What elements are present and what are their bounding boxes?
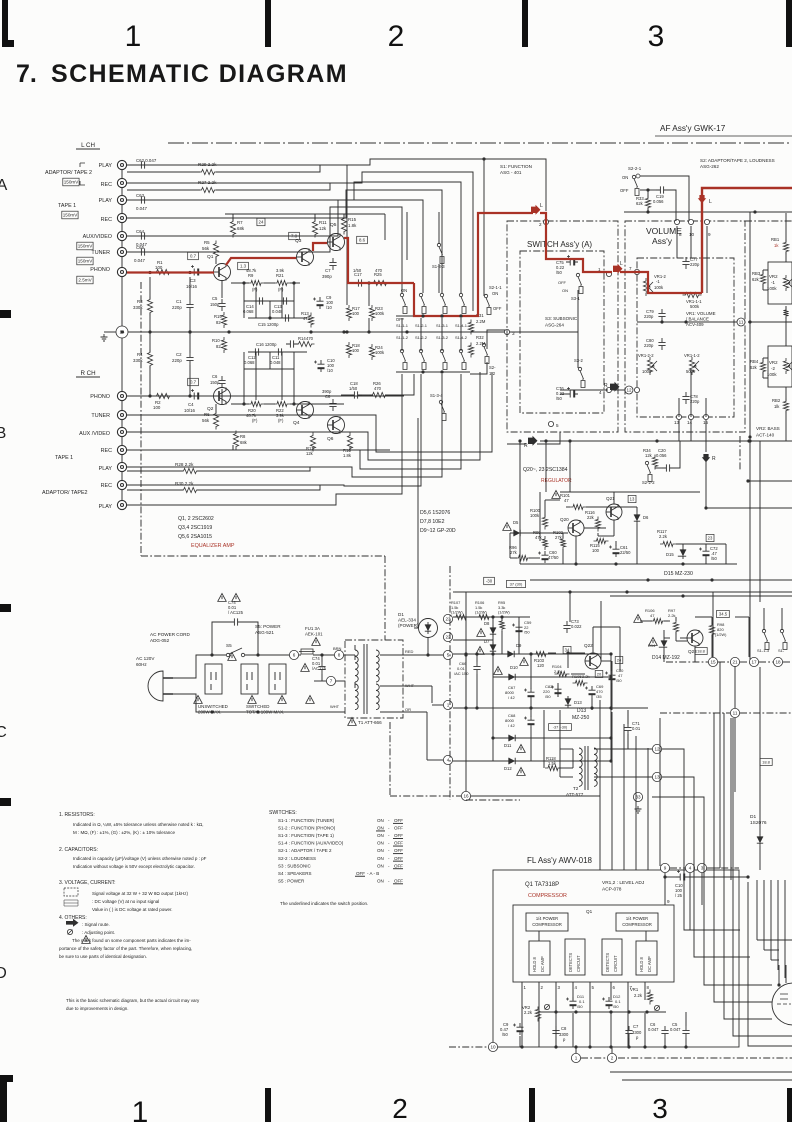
svg-text:60Hz: 60Hz: [136, 662, 147, 667]
svg-text:Q23: Q23: [688, 649, 697, 654]
wire node4: [427, 759, 443, 761]
main rail y441: [540, 440, 792, 442]
svg-text:FU1 3A: FU1 3A: [305, 626, 320, 631]
svg-text:1/4 POWER: 1/4 POWER: [626, 916, 648, 921]
svg-text:1lk: 1lk: [774, 404, 780, 409]
svg-text:100k: 100k: [375, 350, 385, 355]
svg-text:2.2k: 2.2k: [524, 1010, 533, 1015]
svg-text:27k: 27k: [510, 550, 518, 555]
svg-text:portance of the safety fac: portance of the safety factor of the par…: [59, 946, 192, 951]
bracket adaptor: [80, 163, 85, 185]
resistor RBx1: [783, 307, 788, 319]
red signal arrow L top right: [698, 195, 706, 203]
wire 4-12 link: [612, 389, 625, 391]
resistor R103: [533, 651, 549, 656]
svg-text:7.8: 7.8: [291, 234, 298, 239]
input jack rec1: [117, 213, 126, 222]
boxed 24: [257, 218, 265, 225]
svg-text:10/16: 10/16: [186, 284, 198, 289]
wire q22 area: [592, 627, 594, 653]
svg-text:WHT: WHT: [405, 683, 415, 688]
svg-text:D13: D13: [577, 708, 586, 714]
block detects circuit left: [565, 939, 585, 975]
wire rail 592 mid: [570, 591, 627, 593]
svg-text:PHONO: PHONO: [90, 267, 110, 273]
switch S1-1-1: [400, 293, 407, 313]
svg-text:AC 120V: AC 120V: [136, 656, 155, 661]
svg-text:Q6: Q6: [327, 436, 334, 442]
svg-text:3.9k: 3.9k: [276, 268, 285, 273]
resistor R104: [555, 671, 570, 676]
warn C74b: [301, 664, 310, 672]
block hold dc amp left: [529, 941, 550, 975]
wire long bottom 1072: [610, 1071, 792, 1073]
svg-text:T2: T2: [573, 786, 579, 791]
svg-text:100: 100: [592, 548, 600, 553]
svg-text:R15: R15: [348, 217, 357, 222]
svg-text:C3: C3: [190, 278, 196, 283]
svg-text:0.047: 0.047: [648, 1027, 659, 1032]
svg-text:S2-1 : ADAPTOR / TAPE 2: S2-1 : ADAPTOR / TAPE 2: [278, 848, 332, 853]
resistor R7: [230, 219, 235, 238]
svg-text:OFF: OFF: [394, 856, 403, 861]
capacitor C6: [218, 376, 225, 388]
capacitor D12 0.1/50: [606, 997, 613, 1009]
svg-text:TOTAL 100W MAX.: TOTAL 100W MAX.: [246, 710, 284, 715]
svg-text:VR2: VR2: [769, 274, 778, 279]
resistor R18: [346, 342, 351, 358]
svg-text:1: 1: [125, 20, 142, 53]
wire node16 left: [390, 795, 461, 797]
wire Q5 bias stub: [368, 283, 370, 306]
FL bottom rail nodes: [488, 1042, 497, 1051]
equalizer bottom supply rail: [225, 449, 390, 451]
boxed -30: [484, 577, 495, 584]
svg-text:Q5,6 2SA1015: Q5,6 2SA1015: [178, 534, 212, 540]
svg-text:Q1: Q1: [586, 909, 593, 914]
input jack tuner: [117, 247, 126, 256]
svg-text:0.048: 0.048: [270, 360, 281, 365]
svg-text:L: L: [620, 261, 623, 267]
node 6: [289, 650, 298, 659]
svg-text:1/50: 1/50: [353, 268, 362, 273]
svg-text:AEL-334: AEL-334: [398, 618, 416, 623]
node 13m: [652, 772, 661, 781]
svg-text:OFF: OFF: [394, 826, 403, 831]
svg-text:820: 820: [717, 627, 724, 632]
svg-text:R28 2.2k: R28 2.2k: [175, 462, 194, 467]
svg-text:ON: ON: [622, 175, 628, 180]
adjusting point legend: [67, 929, 72, 934]
node 12m: [652, 744, 661, 753]
wire feedback row L: [248, 317, 307, 319]
svg-text:COMPRESSOR: COMPRESSOR: [532, 922, 562, 927]
warn legend: [82, 936, 91, 944]
node 16: [461, 791, 470, 800]
capacitor C4: [190, 393, 202, 400]
capacitor C2: [186, 353, 193, 365]
svg-text:R CH: R CH: [80, 370, 95, 377]
boxed 150mV adaptor: [63, 178, 79, 186]
svg-text:62k: 62k: [750, 365, 758, 370]
outlet 1: [205, 664, 222, 694]
transistor Q20: [568, 520, 584, 536]
wire recR2 line: [127, 374, 421, 486]
svg-text:R4: R4: [137, 352, 143, 357]
resistor R12: [310, 433, 315, 452]
tone dash verticals: [739, 436, 741, 470]
node 23p: [443, 614, 452, 623]
resistor R6: [213, 411, 218, 430]
pin 7 volume: [634, 269, 639, 274]
svg-text:0.7: 0.7: [190, 380, 197, 385]
wire d11 d12 col: [492, 738, 494, 761]
resistor R8: [233, 431, 238, 450]
svg-text:R105: R105: [572, 674, 582, 679]
tone mid rail: [748, 321, 792, 323]
margin tick A-B: [0, 310, 11, 318]
svg-text:ACV-409: ACV-409: [686, 322, 704, 327]
svg-text:11: 11: [733, 711, 738, 716]
ruler tick top right edge: [786, 0, 792, 47]
svg-text:390p: 390p: [322, 389, 332, 394]
AF assembly dash-dot boundary top: [168, 142, 792, 144]
svg-text:(POWER): (POWER): [398, 623, 419, 628]
signal arrow R lower-left: [528, 436, 538, 446]
resistor R1: [154, 269, 173, 274]
switch S1-3-2: [440, 349, 447, 369]
svg-text:R29 2.2k: R29 2.2k: [198, 162, 217, 167]
wire rec1 line: [127, 190, 442, 293]
svg-text:DETECTS: DETECTS: [605, 953, 610, 972]
svg-text:RED: RED: [405, 649, 414, 654]
svg-text:3: 3: [558, 985, 561, 990]
ground symbol at jack column: [101, 334, 108, 341]
svg-text:R9: R9: [248, 273, 254, 278]
svg-text:220p: 220p: [690, 262, 700, 267]
svg-text:D13: D13: [574, 700, 582, 705]
wire tunerR line: [127, 372, 492, 452]
wire q23 down: [694, 646, 696, 662]
svg-text:ON: ON: [377, 826, 384, 831]
warn outlets: [228, 653, 237, 661]
diode D8: [477, 629, 486, 637]
transistor Q6: [328, 417, 345, 434]
svg-text:D1: D1: [750, 814, 756, 820]
input jack recR2: [117, 480, 126, 489]
svg-text:OFF: OFF: [394, 863, 403, 868]
svg-text:8: 8: [679, 232, 682, 237]
svg-text:EQUALIZER AMP: EQUALIZER AMP: [191, 543, 235, 549]
svg-text:150mV: 150mV: [64, 180, 79, 185]
svg-text:C7: C7: [325, 268, 331, 273]
svg-text:20: 20: [597, 671, 602, 676]
wire nest elbow 3: [652, 797, 772, 985]
svg-text:220p: 220p: [690, 399, 700, 404]
wire R arrow drop: [705, 462, 707, 508]
switch S1-3-3: [437, 243, 444, 263]
svg-text:S1-1 : FUNCTION (TUNER): S1-1 : FUNCTION (TUNER): [278, 818, 335, 823]
switch S5: [226, 653, 229, 656]
svg-text:62k: 62k: [752, 277, 760, 282]
resistor RB1: [783, 240, 788, 255]
red signal arrow L mid: [531, 205, 541, 215]
svg-text:D5,6 1S2076: D5,6 1S2076: [420, 510, 450, 516]
wire nest steps right: [757, 939, 792, 941]
boxed 7.8: [289, 232, 300, 239]
wire fuse to node8: [299, 654, 301, 656]
svg-text:ON: ON: [377, 848, 384, 853]
svg-text:100k: 100k: [375, 311, 385, 316]
svg-text:0.056: 0.056: [656, 453, 667, 458]
wire bottom mid dashdot: [466, 799, 520, 801]
svg-text:D10: D10: [510, 665, 518, 670]
red route up right side: [702, 188, 792, 293]
svg-text:2: 2: [388, 20, 405, 53]
svg-text:22/50: 22/50: [620, 550, 631, 555]
svg-text:3: 3: [648, 20, 665, 53]
input jack auxR: [117, 427, 126, 436]
node row dashes: [718, 661, 730, 663]
red route through volume pots: [620, 272, 702, 293]
diode D1b: [757, 834, 763, 846]
wire R out row: [341, 394, 350, 396]
svg-text:150mV: 150mV: [63, 213, 78, 218]
wire s2-2-2 loop: [655, 467, 662, 469]
diode D1 power: [419, 619, 438, 638]
capacitor C11: [274, 348, 286, 355]
capacitor C60: [542, 551, 549, 563]
transformer T1 box: [345, 640, 403, 718]
svg-text:(F): (F): [252, 287, 258, 292]
capacitor C69: [589, 686, 596, 698]
ruler tick top x=268: [265, 0, 271, 47]
wire left boundary lower: [384, 556, 386, 640]
svg-text:D11: D11: [504, 743, 512, 748]
svg-text:S1-3-4: S1-3-4: [430, 393, 443, 398]
svg-text:L CH: L CH: [81, 142, 95, 149]
FL cap drops: [519, 1036, 521, 1047]
wire q22 conn: [548, 652, 556, 654]
svg-text:PLAY: PLAY: [99, 466, 113, 472]
capacitor C7: [329, 258, 336, 270]
svg-text:12: 12: [626, 388, 632, 393]
svg-text:S3: SUBSONIC: S3: SUBSONIC: [545, 316, 578, 321]
switch S2-2-2: [645, 461, 652, 481]
svg-text:HOLD 8: HOLD 8: [639, 956, 644, 972]
wire node15 up: [712, 592, 714, 657]
wire x760 upper: [759, 441, 761, 602]
svg-text:-2: -2: [771, 366, 775, 371]
capacitor C72: [703, 547, 710, 559]
resistor R23: [369, 305, 374, 321]
capacitor C9: [317, 297, 324, 309]
resistor R22: [274, 401, 290, 406]
wire t2 conn: [594, 748, 652, 750]
node 8: [334, 650, 343, 659]
svg-text:CIRCUIT: CIRCUIT: [576, 955, 581, 972]
wire playR2 line: [127, 374, 402, 505]
red route to switch assy: [540, 213, 612, 272]
node 7: [326, 676, 335, 685]
node 5p: [443, 650, 452, 659]
svg-text:2.2k: 2.2k: [634, 993, 643, 998]
potentiometer VR1-2-2: [647, 357, 652, 375]
svg-text:24: 24: [259, 220, 264, 225]
node 18m: [773, 657, 782, 666]
AF assembly dash-dot boundary left: [140, 282, 142, 556]
svg-text:S5 : POWER: S5 : POWER: [278, 878, 305, 883]
signal arrow R to node12: [610, 382, 620, 392]
svg-text:UNSWITCHED: UNSWITCHED: [198, 704, 228, 709]
svg-text:ON: ON: [377, 863, 384, 868]
wire reg top rail: [545, 499, 560, 501]
wire tube leads: [778, 965, 780, 985]
red signal route L channel equalizer: [127, 271, 214, 273]
boxed 18.8a: [695, 648, 707, 655]
svg-text:FL Ass'y AWV-018: FL Ass'y AWV-018: [527, 856, 593, 865]
wire nest verticals right: [756, 880, 758, 940]
svg-text:SWITCHED: SWITCHED: [246, 704, 269, 709]
adjust point left: [544, 1004, 549, 1009]
capacitor C75: [566, 259, 578, 266]
matrix column gaps: [401, 318, 403, 351]
svg-text:OFF: OFF: [394, 878, 403, 883]
svg-text:21: 21: [732, 660, 738, 665]
svg-text:p: p: [563, 1037, 566, 1042]
diode D9: [505, 651, 517, 657]
svg-text:150p: 150p: [210, 380, 220, 385]
svg-text:TAPE 1: TAPE 1: [55, 455, 73, 461]
svg-text:62k: 62k: [636, 201, 644, 206]
wire s2-2-1 on: [640, 176, 689, 221]
svg-text:VR1: VR1: [630, 987, 639, 992]
resistor R19: [221, 312, 226, 328]
svg-text:REC: REC: [101, 217, 112, 223]
resistor R26: [370, 392, 389, 397]
svg-text:13: 13: [654, 775, 660, 780]
svg-text:D9~12 GP-20D: D9~12 GP-20D: [420, 528, 456, 534]
svg-text:S1-1-3: S1-1-3: [757, 648, 770, 653]
IC internal wires: [538, 931, 540, 941]
svg-text:R27 2.2k: R27 2.2k: [198, 180, 217, 185]
svg-text:0.01: 0.01: [632, 726, 641, 731]
svg-text:82: 82: [216, 320, 221, 325]
resistor R16: [347, 433, 352, 452]
wire rails right trio a: [530, 579, 792, 581]
resistor R13: [308, 313, 313, 328]
svg-text:S3-2: S3-2: [574, 358, 584, 363]
svg-text:2.2k: 2.2k: [582, 674, 590, 679]
resistor R24: [369, 344, 374, 360]
svg-text:be sure to use parts of identi: be sure to use parts of identical design…: [59, 954, 147, 959]
svg-text:330k: 330k: [133, 358, 143, 363]
svg-text:1-2: 1-2: [489, 371, 496, 376]
svg-text:ASG-264: ASG-264: [545, 323, 564, 328]
svg-text:3: 3: [652, 1093, 668, 1122]
boxed 0.7 Q1: [188, 252, 199, 259]
capacitor C73: [563, 621, 570, 633]
svg-text:18.8: 18.8: [762, 759, 771, 764]
node 11m: [730, 708, 739, 717]
svg-text:3: 3: [512, 331, 515, 336]
svg-text:100: 100: [352, 311, 360, 316]
svg-text:220p: 220p: [172, 358, 182, 363]
svg-text:3. VOLTAGE, CURRENT:: 3. VOLTAGE, CURRENT:: [59, 880, 116, 886]
svg-text:D5: D5: [513, 520, 519, 525]
wire r98 col: [711, 617, 713, 625]
svg-text:2: 2: [541, 985, 544, 990]
svg-text:VR1-2-2: VR1-2-2: [638, 353, 654, 358]
red signal route equalizer output: [344, 238, 414, 283]
svg-text:R10: R10: [212, 338, 220, 343]
svg-text:: Adjusting point.: : Adjusting point.: [82, 930, 115, 935]
ruler tick top x=525: [522, 0, 528, 47]
resistor R2: [154, 393, 173, 398]
ruler tick bottom right: [787, 1088, 792, 1122]
wire reg to rail stubs: [545, 441, 547, 492]
input jack rec2: [117, 178, 126, 187]
red route through S2-1-1 switch: [414, 213, 533, 316]
input jack recR1: [117, 445, 126, 454]
svg-text:C7: C7: [633, 1024, 639, 1029]
capacitor C8: [329, 399, 336, 411]
svg-text:Q5: Q5: [330, 222, 337, 228]
svg-text:B: B: [0, 425, 6, 442]
capacitor C74a: [230, 618, 242, 625]
svg-text:PLAY: PLAY: [99, 198, 113, 204]
wire phonoR line: [127, 395, 404, 397]
boxed 8.6: [357, 236, 368, 243]
svg-text:AUX /VIDEO: AUX /VIDEO: [79, 431, 110, 437]
node 15m: [708, 657, 717, 666]
resistor R17: [346, 305, 351, 321]
wire node1: [432, 704, 443, 706]
wire nest elbow 4: [714, 713, 772, 1002]
svg-text:22k: 22k: [587, 515, 595, 520]
svg-text:0.7: 0.7: [190, 254, 197, 259]
boxed 24r: [615, 657, 623, 664]
wire q23 base: [680, 637, 687, 639]
svg-text:ON: ON: [377, 833, 384, 838]
node 2 fl: [607, 1053, 616, 1062]
capacitor C1: [186, 300, 193, 312]
capacitor C65: [137, 248, 149, 255]
boxed 34.5: [717, 610, 730, 617]
switch S3-1: [576, 273, 583, 293]
svg-text:VR1,2 : LEVEL ADJ: VR1,2 : LEVEL ADJ: [602, 880, 645, 886]
svg-text:D15 MZ-230: D15 MZ-230: [664, 571, 693, 577]
svg-text:1.5k: 1.5k: [548, 761, 557, 766]
svg-text:4: 4: [575, 985, 578, 990]
svg-text:100k: 100k: [767, 372, 777, 377]
wire T1 out wht: [380, 685, 432, 687]
svg-text:OFF: OFF: [394, 833, 403, 838]
svg-text:/ 42: / 42: [508, 723, 515, 728]
IC Q1 inner box: [513, 905, 674, 982]
svg-text:-: -: [388, 818, 390, 823]
svg-text:8: 8: [338, 653, 341, 658]
capacitor C5 fl: [682, 1026, 689, 1038]
wire C74b: [321, 655, 323, 662]
SWITCH Ass'y (A) inner dashed box: [520, 251, 604, 413]
zener D14: [659, 638, 667, 650]
svg-text:100k: 100k: [767, 286, 777, 291]
switch S1-3-1: [440, 293, 447, 313]
AF assembly boundary bottom-left: [141, 555, 190, 557]
wire feedback y283: [231, 282, 249, 284]
svg-text:p: p: [636, 1035, 639, 1040]
